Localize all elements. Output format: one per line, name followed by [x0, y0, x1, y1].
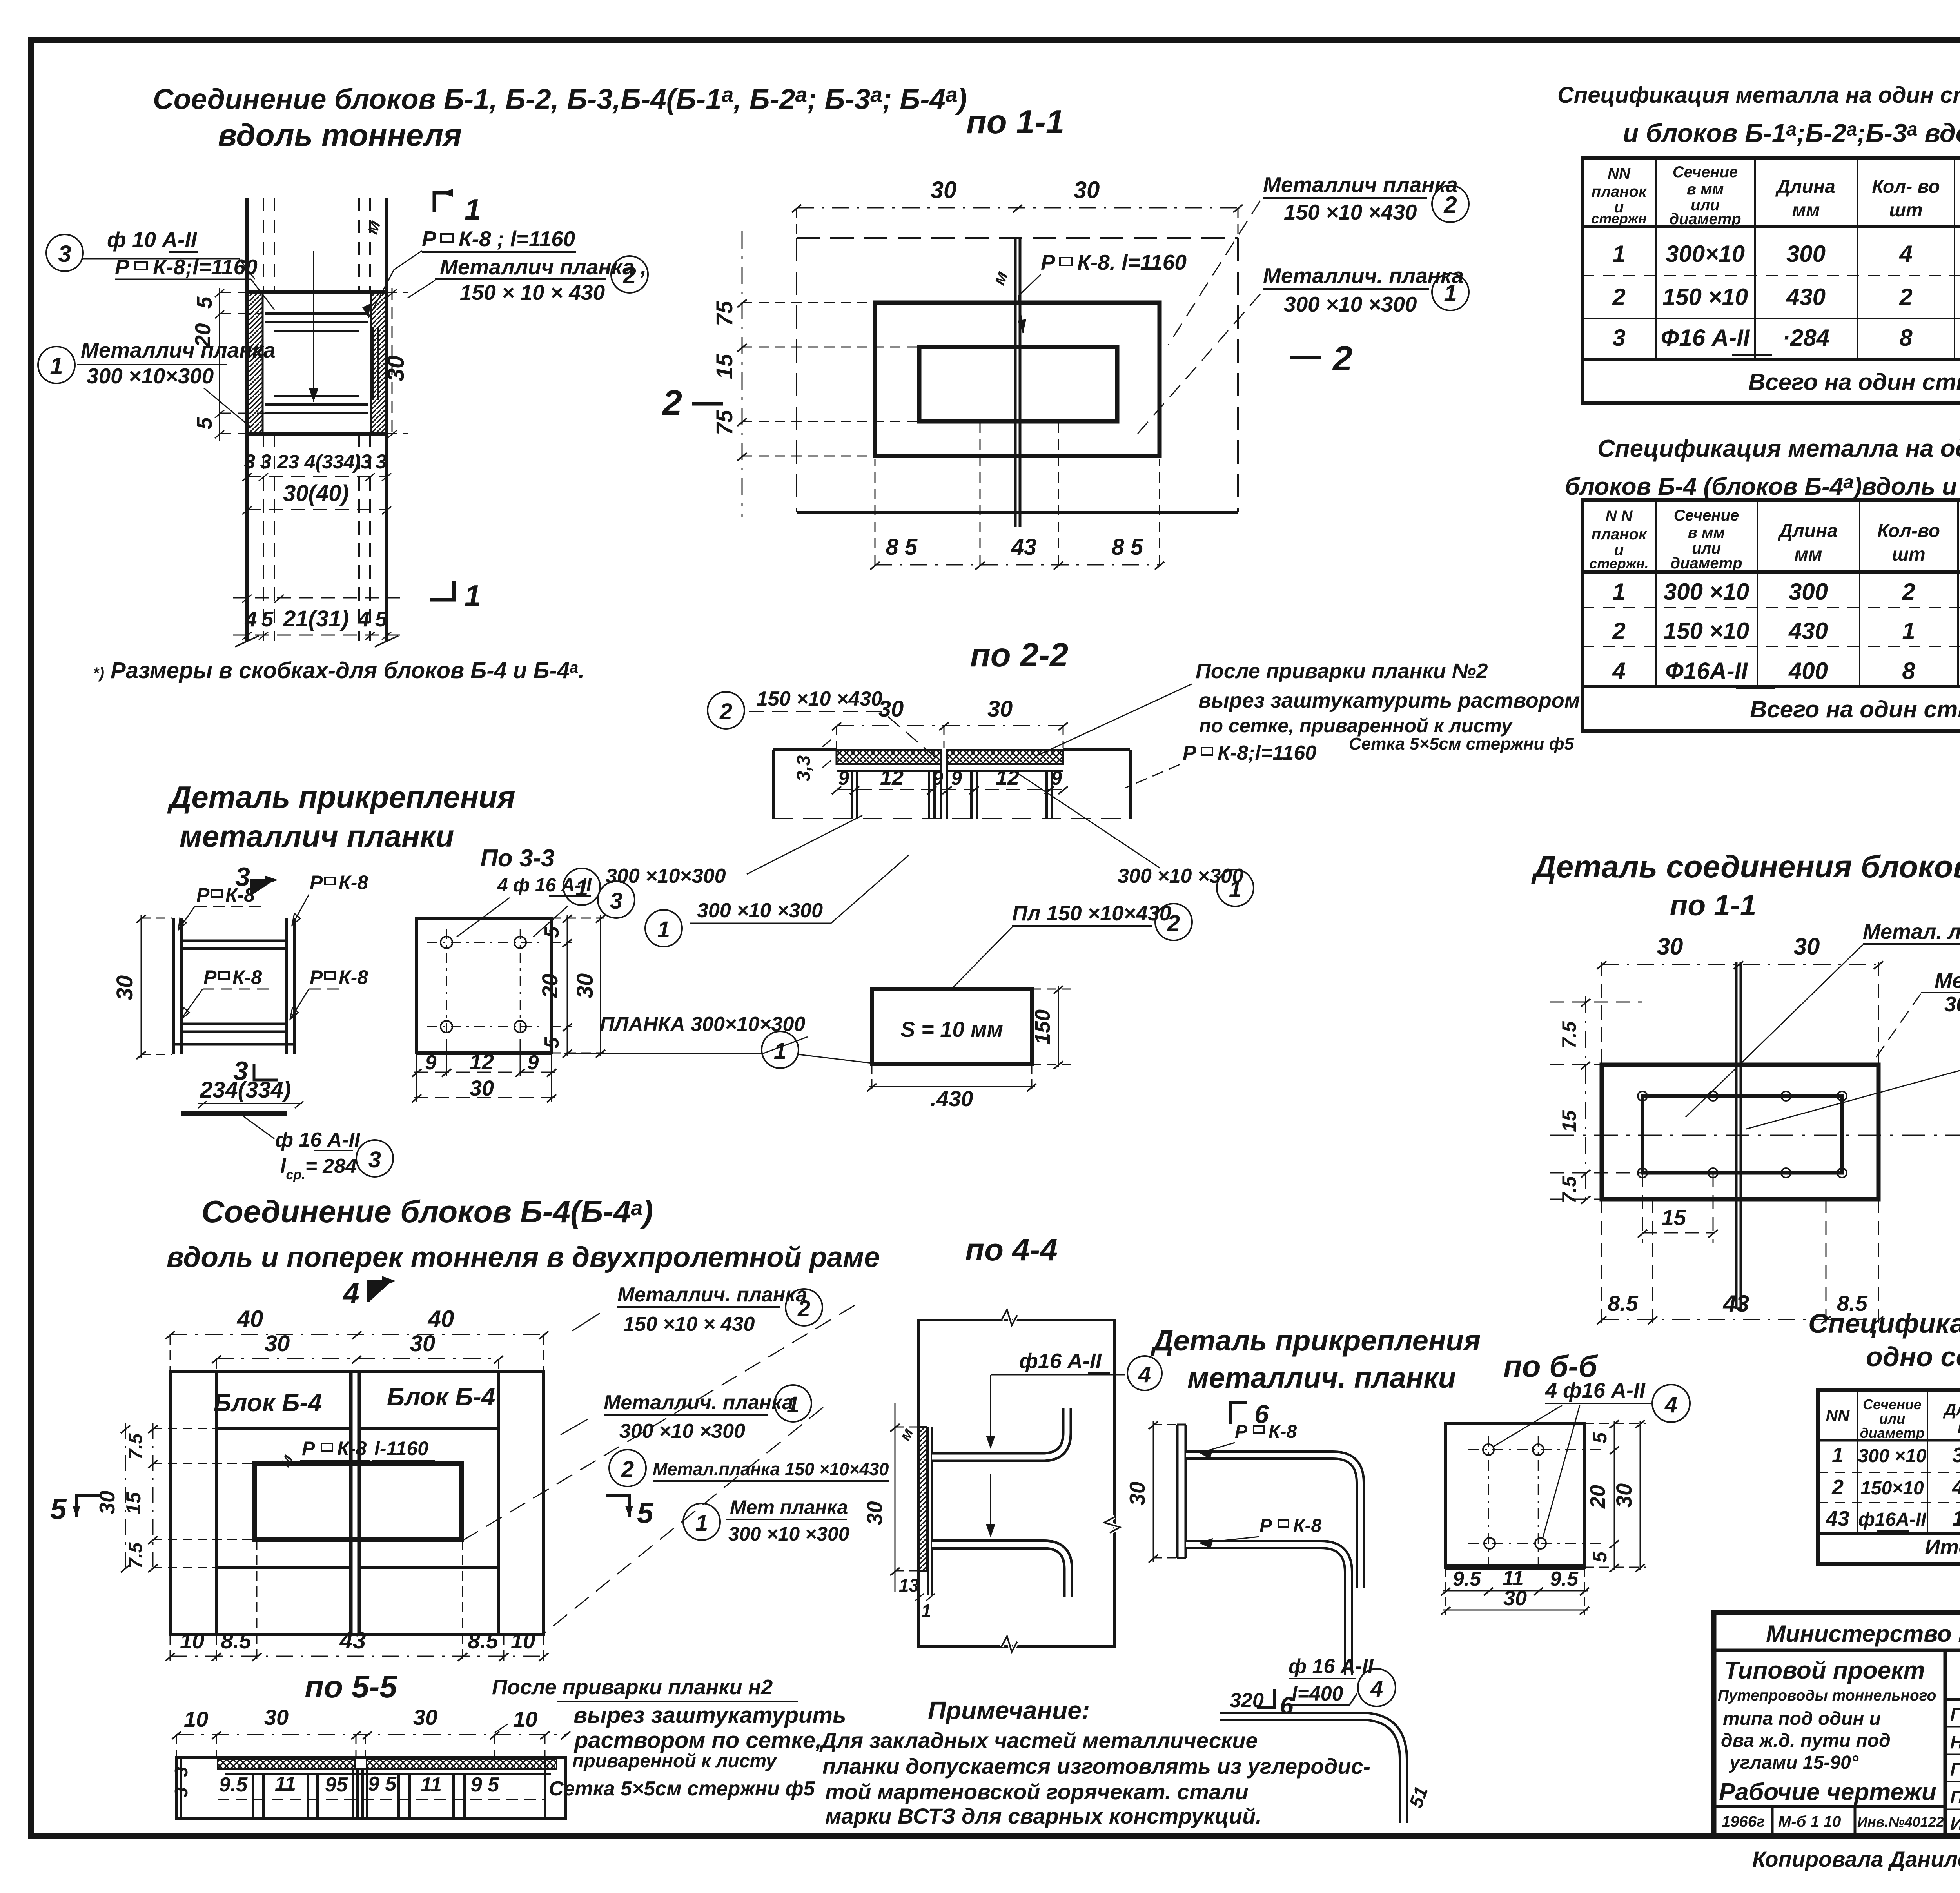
svg-text:15: 15 — [1558, 1110, 1580, 1132]
svg-text:Исполнил.: Исполнил. — [1950, 1813, 1960, 1834]
svg-text:l=400: l=400 — [1292, 1682, 1343, 1705]
svg-text:К-8: К-8 — [225, 884, 255, 906]
svg-text:30: 30 — [470, 1076, 494, 1100]
svg-text:1: 1 — [657, 917, 670, 942]
svg-text:430: 430 — [1952, 1476, 1960, 1499]
plan: outer plate 300x300 — [1550, 961, 1960, 1330]
left dims — [1585, 996, 1586, 1207]
long dash leaders — [463, 1305, 855, 1541]
dim 430 bottom — [867, 1064, 1036, 1094]
block outline — [170, 1371, 544, 1635]
svg-text:9.5: 9.5 — [1550, 1568, 1579, 1590]
svg-text:75: 75 — [712, 410, 737, 435]
dim 30 left — [890, 1403, 917, 1592]
svg-text:S = 10 мм: S = 10 мм — [900, 1017, 1003, 1042]
svg-text:9.5: 9.5 — [219, 1773, 248, 1796]
svg-text:30: 30 — [1503, 1586, 1527, 1610]
svg-text:8: 8 — [1899, 325, 1913, 351]
svg-text:300 ×300 ×10: 300 ×300 ×10 — [1944, 993, 1960, 1016]
svg-text:металлич планки: металлич планки — [180, 819, 454, 853]
svg-text:К-8: К-8 — [339, 966, 368, 988]
bottom dims — [165, 1539, 548, 1664]
table2 data — [1612, 579, 1960, 722]
svg-text:12: 12 — [880, 766, 904, 790]
svg-text:10: 10 — [180, 1628, 204, 1653]
left dim line — [742, 231, 743, 517]
dim 150 right — [1032, 986, 1076, 1069]
svg-text:По 3-3: По 3-3 — [480, 845, 554, 872]
svg-text:5: 5 — [637, 1496, 654, 1529]
svg-text:30: 30 — [95, 1490, 119, 1515]
svg-text:2: 2 — [662, 383, 682, 423]
svg-text:два ж.д. пути под: два ж.д. пути под — [1721, 1730, 1891, 1751]
svg-text:2: 2 — [1443, 192, 1457, 218]
svg-text:1: 1 — [575, 875, 588, 901]
svg-text:К-8: К-8 — [339, 871, 368, 893]
svg-text:3: 3 — [260, 450, 272, 473]
svg-text:Гл инж.ГТ.М: Гл инж.ГТ.М — [1950, 1704, 1960, 1725]
vertical bar inside right plate — [373, 327, 378, 400]
joint center — [941, 750, 947, 819]
svg-text:8.5: 8.5 — [1608, 1291, 1639, 1316]
svg-text:Всего на один стык: Всего на один стык — [1748, 369, 1960, 395]
svg-text:300: 300 — [1789, 579, 1828, 605]
hatched plate strips — [837, 750, 941, 764]
side plate left hatched — [248, 293, 263, 433]
svg-text:NN: NN — [1608, 165, 1631, 182]
svg-text:4: 4 — [358, 607, 370, 631]
column upper segment — [235, 198, 398, 647]
svg-text:диаметр: диаметр — [1860, 1425, 1925, 1441]
concrete outline — [773, 750, 1130, 819]
svg-text:блоков Б-4 (блоков Б-4а)вдол: блоков Б-4 (блоков Б-4а)вдоль и поперек … — [1565, 472, 1960, 500]
table1 data — [1612, 241, 1960, 395]
svg-text:вдоль тоннеля: вдоль тоннеля — [218, 118, 462, 152]
svg-text:30: 30 — [1074, 177, 1100, 203]
svg-text:30: 30 — [1612, 1483, 1636, 1508]
svg-text:ф 16 А-II: ф 16 А-II — [1289, 1655, 1374, 1678]
svg-text:430: 430 — [1788, 618, 1828, 644]
svg-text:Металлич. планка: Металлич. планка — [604, 1391, 793, 1414]
svg-text:Сечение: Сечение — [1863, 1396, 1922, 1412]
svg-text:30(40): 30(40) — [283, 481, 349, 506]
dim 30 left of H — [136, 915, 172, 1059]
svg-text:Сечение: Сечение — [1674, 507, 1739, 524]
svg-text:9: 9 — [951, 767, 962, 789]
svg-text:Длина: Длина — [1777, 521, 1838, 541]
leader arrow down the middle — [313, 251, 314, 402]
side plate right hatched — [371, 293, 386, 433]
svg-text:Спецификация металла на: Спецификация металла на — [1808, 1308, 1960, 1339]
inner plates horizontal — [265, 251, 378, 413]
svg-text:Деталь прикрепления: Деталь прикрепления — [167, 780, 515, 814]
svg-text:4: 4 — [1370, 1676, 1383, 1702]
table1 grid — [1583, 158, 1960, 403]
svg-text:300 ×10 ×300: 300 ×10 ×300 — [697, 899, 823, 922]
svg-text:1: 1 — [774, 1038, 786, 1064]
svg-text:После приварки планки н2: После приварки планки н2 — [492, 1675, 773, 1699]
svg-text:5: 5 — [375, 607, 388, 631]
svg-text:Метал. лист: Метал. лист — [1935, 969, 1960, 993]
plate 150x430 inner rect — [919, 347, 1117, 421]
labels (2) Метал.планка и (1) Мет планка — [609, 1450, 646, 1486]
svg-text:8 5: 8 5 — [886, 534, 918, 560]
svg-text:в мм: в мм — [1688, 524, 1725, 541]
svg-text:400: 400 — [1788, 658, 1828, 684]
svg-text:300 ×10: 300 ×10 — [1858, 1446, 1927, 1466]
svg-text:Блок Б-4: Блок Б-4 — [214, 1388, 322, 1417]
svg-text:Нач тип отд: Нач тип отд — [1950, 1732, 1960, 1752]
svg-text:12: 12 — [470, 1049, 494, 1074]
dim 15 — [1642, 1232, 1713, 1234]
dims right — [1584, 1420, 1646, 1572]
svg-text:10: 10 — [184, 1707, 208, 1731]
center seam — [351, 1371, 359, 1635]
svg-text:300 ×10 ×300: 300 ×10 ×300 — [728, 1523, 849, 1545]
dims below plate — [412, 1039, 556, 1102]
label circle2 150x10x430 — [708, 692, 744, 729]
svg-text:30: 30 — [410, 1331, 436, 1356]
svg-text:2: 2 — [1902, 579, 1915, 605]
svg-text:9.5: 9.5 — [1453, 1568, 1481, 1590]
svg-text:ф 10 А-II: ф 10 А-II — [107, 227, 198, 252]
svg-text:планок: планок — [1592, 183, 1647, 200]
svg-text:Р: Р — [422, 227, 436, 251]
svg-text:Р: Р — [1183, 742, 1196, 764]
svg-text:43: 43 — [1011, 534, 1037, 560]
svg-text:43: 43 — [1826, 1507, 1849, 1530]
svg-text:мм: мм — [1792, 200, 1820, 221]
svg-text:Деталь соединения блоков по: Деталь соединения блоков подпорных стен — [1531, 849, 1960, 884]
svg-text:Сетка 5×5см стержни ф5: Сетка 5×5см стержни ф5 — [1349, 734, 1574, 753]
svg-text:30: 30 — [862, 1501, 887, 1525]
svg-text:1: 1 — [1444, 280, 1457, 306]
svg-text:150: 150 — [1952, 1507, 1960, 1530]
svg-text:·284: ·284 — [1782, 325, 1829, 351]
svg-text:раствором по сетке,: раствором по сетке, — [573, 1728, 822, 1753]
svg-text:8: 8 — [1902, 658, 1915, 684]
svg-text:3: 3 — [244, 450, 256, 473]
horizontal centerline — [1550, 1135, 1960, 1136]
svg-text:Гл инж.прта: Гл инж.прта — [1950, 1759, 1960, 1780]
svg-text:углами 15-90°: углами 15-90° — [1729, 1752, 1859, 1773]
svg-text:15: 15 — [122, 1492, 145, 1515]
svg-text:Р: Р — [196, 884, 210, 906]
svg-text:43: 43 — [1723, 1290, 1749, 1317]
svg-text:43: 43 — [339, 1627, 366, 1653]
svg-text:N N: N N — [1606, 508, 1633, 525]
table3 grid — [1818, 1390, 1960, 1564]
svg-text:Блок Б-4: Блок Б-4 — [387, 1383, 495, 1411]
svg-text:150 ×10 ×430: 150 ×10 ×430 — [757, 688, 882, 710]
svg-text:3: 3 — [58, 241, 71, 267]
bottom dim line — [875, 564, 1160, 566]
svg-text:Сетка 5×5см стержни ф5: Сетка 5×5см стержни ф5 — [549, 1777, 815, 1800]
svg-text:1: 1 — [1612, 579, 1625, 605]
svg-text:1: 1 — [1832, 1443, 1844, 1467]
dims right of plate — [552, 915, 605, 1058]
svg-text:5: 5 — [1589, 1432, 1611, 1443]
svg-text:той мартеновской горячекат.: той мартеновской горячекат. стали — [825, 1779, 1249, 1804]
REGION_E — [563, 637, 1580, 1111]
H-detail — [174, 918, 294, 1054]
svg-text:по 4-4: по 4-4 — [965, 1232, 1058, 1267]
svg-text:30: 30 — [572, 973, 598, 999]
svg-text:9: 9 — [838, 767, 849, 789]
svg-text:Ф16А-II: Ф16А-II — [1665, 658, 1748, 684]
svg-text:Для закладных частей металл: Для закладных частей металлические — [819, 1728, 1258, 1753]
svg-text:9 5: 9 5 — [368, 1773, 397, 1795]
mark 2 right — [1290, 356, 1321, 359]
svg-text:30: 30 — [987, 696, 1013, 722]
svg-text:5: 5 — [541, 926, 563, 938]
table3 header — [1826, 1396, 1960, 1441]
svg-text:1: 1 — [465, 193, 481, 226]
svg-text:в мм: в мм — [1687, 181, 1724, 198]
svg-text:300: 300 — [1952, 1443, 1960, 1467]
svg-text:мм: мм — [1794, 544, 1822, 565]
svg-text:1: 1 — [921, 1601, 931, 1621]
svg-text:5: 5 — [541, 1036, 563, 1048]
svg-text:1: 1 — [695, 1510, 708, 1536]
svg-text:20: 20 — [537, 974, 562, 998]
anchor hook bottom (bends down) — [932, 1545, 1068, 1597]
svg-text:300: 300 — [1786, 241, 1826, 267]
svg-text:Кол- во: Кол- во — [1872, 176, 1940, 197]
svg-text:планки допускается изготовлят: планки допускается изготовлять из углеро… — [822, 1754, 1370, 1779]
svg-text:1: 1 — [465, 579, 481, 612]
svg-text:После приварки планки №2: После приварки планки №2 — [1196, 659, 1488, 683]
column lower segment — [247, 434, 387, 641]
svg-text:5: 5 — [50, 1492, 67, 1525]
svg-text:75: 75 — [712, 301, 737, 326]
P K-8 labels — [196, 871, 368, 988]
svg-text:40: 40 — [428, 1306, 454, 1332]
svg-text:7.5: 7.5 — [1558, 1021, 1580, 1049]
svg-text:К-8: К-8 — [232, 966, 262, 988]
svg-text:К-8. l=1160: К-8. l=1160 — [1077, 250, 1187, 274]
svg-text:планок: планок — [1592, 526, 1647, 543]
svg-text:3: 3 — [610, 888, 622, 914]
centerline with arrows — [990, 1375, 991, 1529]
svg-text:9: 9 — [425, 1051, 437, 1074]
svg-text:по сетке, приваренной к лист: по сетке, приваренной к листу — [1199, 715, 1513, 737]
svg-text:диаметр: диаметр — [1670, 555, 1742, 572]
svg-text:1: 1 — [787, 1392, 799, 1417]
svg-text:300 ×10 ×300: 300 ×10 ×300 — [1118, 865, 1243, 888]
REGION_J — [1714, 1613, 1960, 1871]
svg-text:300 ×10 ×300: 300 ×10 ×300 — [1284, 292, 1417, 316]
svg-text:5: 5 — [261, 607, 274, 631]
svg-text:Примечание:: Примечание: — [928, 1696, 1090, 1724]
svg-text:2: 2 — [1831, 1476, 1844, 1499]
svg-text:по б-б: по б-б — [1503, 1349, 1598, 1383]
left dims 7.5 15 7.5 / 30 — [121, 1423, 254, 1572]
svg-text:Пл 150 ×10×430: Пл 150 ×10×430 — [1012, 902, 1171, 925]
REGION_B — [712, 103, 1469, 570]
svg-text:Металлич планка: Металлич планка — [81, 338, 276, 362]
svg-text:7.5: 7.5 — [125, 1542, 146, 1568]
plate detail 2 — [1177, 1425, 1186, 1558]
svg-text:Кол-во: Кол-во — [1877, 521, 1940, 541]
svg-text:2: 2 — [1612, 618, 1625, 644]
stamp outer — [1714, 1613, 1960, 1836]
svg-text:4: 4 — [342, 1277, 359, 1310]
svg-text:Инв.№40122: Инв.№40122 — [1857, 1814, 1944, 1830]
studs — [852, 771, 935, 819]
svg-text:Метал. лист 430 ×150×10: Метал. лист 430 ×150×10 — [1863, 918, 1960, 944]
svg-text:30: 30 — [413, 1705, 437, 1730]
svg-text:11: 11 — [275, 1773, 296, 1795]
svg-text:Министерство транспортного с: Министерство транспортного строительства… — [1766, 1621, 1960, 1647]
anchor hook top (bends up) — [932, 1408, 1067, 1457]
svg-text:*) Размеры в скобках-для блоко: *) Размеры в скобках-для блоков Б-4 и Б-… — [93, 658, 584, 683]
svg-text:30: 30 — [1125, 1481, 1149, 1506]
svg-text:К-8: К-8 — [1293, 1515, 1321, 1536]
svg-text:Р: Р — [1041, 250, 1055, 274]
svg-text:по 1-1: по 1-1 — [1670, 889, 1757, 922]
svg-text:Металлич планка ,: Металлич планка , — [440, 255, 646, 279]
plate 300x300 big rect — [875, 303, 1160, 456]
svg-text:15: 15 — [1662, 1205, 1686, 1230]
svg-text:1966г: 1966г — [1722, 1813, 1765, 1830]
REGION_I — [1808, 1308, 1960, 1564]
svg-text:30: 30 — [265, 1331, 290, 1356]
svg-text:3: 3 — [368, 1147, 381, 1172]
svg-text:Проверил: Проверил — [1950, 1787, 1960, 1807]
svg-text:Всего на один стык: Всего на один стык — [1750, 696, 1960, 722]
svg-text:мм: мм — [1958, 1418, 1960, 1436]
table3 data — [1826, 1443, 1960, 1559]
right labels — [645, 910, 682, 947]
plate rect — [254, 1463, 461, 1539]
svg-text:30: 30 — [1657, 933, 1683, 960]
svg-text:2: 2 — [621, 1457, 634, 1482]
svg-text:8.5: 8.5 — [468, 1628, 499, 1653]
svg-text:430: 430 — [1786, 284, 1826, 310]
svg-text:М-б 1 10: М-б 1 10 — [1778, 1813, 1841, 1830]
svg-text:3: 3 — [171, 1787, 191, 1797]
svg-text:4: 4 — [1612, 658, 1625, 684]
svg-text:5: 5 — [192, 296, 216, 309]
svg-text:95: 95 — [325, 1773, 348, 1796]
svg-text:3: 3 — [1612, 325, 1625, 351]
wall plate hatched — [918, 1427, 926, 1571]
svg-text:4: 4 — [245, 607, 257, 631]
svg-text:6: 6 — [1254, 1399, 1269, 1428]
svg-text:Деталь прикрепления: Деталь прикрепления — [1150, 1324, 1481, 1357]
center seam — [1015, 238, 1020, 527]
svg-text:Мет планка: Мет планка — [730, 1496, 848, 1518]
svg-text:Спецификация металла на один с: Спецификация металла на один стык соедин… — [1557, 82, 1960, 108]
svg-text:Металлич планка: Металлич планка — [1263, 172, 1458, 197]
svg-text:2: 2 — [719, 699, 732, 724]
table2 grid — [1583, 500, 1960, 731]
REGION_A — [38, 82, 967, 788]
svg-text:5: 5 — [192, 417, 216, 429]
svg-text:Типовой проект: Типовой проект — [1724, 1657, 1925, 1684]
top dim 30 30 — [832, 722, 1068, 748]
top dim line — [797, 207, 1238, 209]
svg-text:К-8: К-8 — [1269, 1421, 1297, 1442]
svg-text:NN: NN — [1826, 1406, 1850, 1425]
svg-text:Металлич. планка: Металлич. планка — [617, 1283, 807, 1306]
svg-text:2: 2 — [1612, 284, 1625, 310]
svg-text:30: 30 — [931, 177, 957, 203]
svg-text:4: 4 — [1138, 1362, 1151, 1387]
svg-text:по 1-1: по 1-1 — [966, 103, 1064, 141]
REGION_D — [112, 780, 909, 1273]
svg-text:Р: Р — [1235, 1421, 1248, 1442]
svg-text:по 2-2: по 2-2 — [970, 637, 1068, 674]
svg-text:вырез заштукатурить раствором: вырез заштукатурить раствором — [1198, 689, 1580, 712]
svg-text:150 ×10: 150 ×10 — [1664, 618, 1749, 644]
svg-text:7.5: 7.5 — [1558, 1176, 1580, 1203]
svg-text:150 ×10 × 430: 150 ×10 × 430 — [623, 1313, 755, 1336]
cell dims 9 12 9 9 12 9 — [832, 786, 1068, 794]
svg-text:9: 9 — [1051, 767, 1062, 789]
svg-text:Путепроводы тоннельного: Путепроводы тоннельного — [1718, 1687, 1936, 1704]
svg-text:300 ×10: 300 ×10 — [1664, 579, 1749, 605]
svg-text:марки ВСТЗ для сварных кон: марки ВСТЗ для сварных конструкций. — [825, 1804, 1262, 1828]
holes — [427, 929, 541, 1039]
svg-text:300×10: 300×10 — [1666, 241, 1745, 267]
weld circles on inner plate — [1638, 1091, 1847, 1178]
svg-text:ф16А-II: ф16А-II — [1858, 1509, 1927, 1530]
svg-text:2: 2 — [1332, 339, 1352, 378]
table1 header — [1591, 163, 1960, 228]
construction dashed verticals — [1602, 962, 1878, 1330]
svg-text:Рабочие чертежи: Рабочие чертежи — [1719, 1779, 1936, 1806]
dim right 30 — [387, 288, 408, 439]
svg-text:1: 1 — [1229, 877, 1241, 902]
svg-text:300 ×10 ×300: 300 ×10 ×300 — [619, 1420, 745, 1443]
svg-text:2: 2 — [797, 1296, 810, 1321]
svg-text:Р: Р — [310, 871, 323, 893]
svg-text:11: 11 — [421, 1773, 442, 1796]
svg-text:4 ф16 А-II: 4 ф16 А-II — [1545, 1379, 1646, 1402]
svg-text:2: 2 — [622, 262, 636, 289]
svg-text:2: 2 — [1167, 911, 1180, 936]
svg-text:30: 30 — [1794, 933, 1820, 960]
svg-text:Соединение блоков Б-1, Б-2, Б: Соединение блоков Б-1, Б-2, Б-3,Б-4(Б-1а… — [153, 82, 967, 115]
svg-text:приваренной к листу: приваренной к листу — [572, 1751, 777, 1771]
center seam — [1736, 962, 1741, 1309]
svg-text:13: 13 — [899, 1575, 919, 1595]
svg-text:21(31): 21(31) — [283, 606, 349, 632]
svg-text:типа под один и: типа под один и — [1723, 1708, 1881, 1729]
svg-text:.430: .430 — [931, 1086, 973, 1111]
svg-text:шт: шт — [1889, 200, 1922, 221]
svg-text:Р: Р — [203, 966, 217, 988]
svg-text:Метал.планка 150 ×10×430: Метал.планка 150 ×10×430 — [653, 1459, 889, 1479]
svg-text:150×10: 150×10 — [1860, 1478, 1924, 1499]
svg-text:Длина: Длина — [1943, 1400, 1960, 1419]
svg-text:шт: шт — [1892, 544, 1925, 565]
svg-text:одно соединение: одно соединение — [1866, 1341, 1960, 1372]
top dim line — [1602, 964, 1878, 965]
svg-text:Длина: Длина — [1775, 176, 1835, 197]
svg-text:300 ×10×300: 300 ×10×300 — [606, 865, 726, 888]
svg-text:2: 2 — [1899, 284, 1912, 310]
svg-text:300 ×10×300: 300 ×10×300 — [87, 364, 214, 388]
svg-text:15: 15 — [712, 354, 737, 379]
svg-text:5: 5 — [1589, 1551, 1611, 1563]
svg-text:диаметр: диаметр — [1669, 211, 1741, 228]
top dim 40 40 — [165, 1331, 548, 1371]
svg-text:ф 16 А-II: ф 16 А-II — [275, 1129, 361, 1151]
svg-text:7.5: 7.5 — [125, 1433, 146, 1459]
